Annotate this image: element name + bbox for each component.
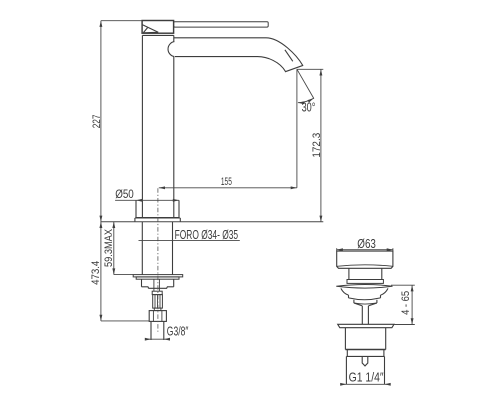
- svg-text:4 - 65: 4 - 65: [400, 291, 412, 315]
- svg-text:155: 155: [221, 176, 232, 188]
- svg-text:G1 1/4″: G1 1/4″: [349, 370, 384, 385]
- svg-text:Ø50: Ø50: [115, 188, 134, 201]
- svg-text:172.3: 172.3: [311, 133, 323, 158]
- svg-text:Ø63: Ø63: [357, 237, 376, 251]
- svg-text:G3/8″: G3/8″: [167, 324, 189, 339]
- svg-text:59.3MAX: 59.3MAX: [103, 228, 115, 267]
- svg-text:FORO Ø34- Ø35: FORO Ø34- Ø35: [175, 227, 239, 242]
- svg-text:30°: 30°: [302, 100, 316, 114]
- svg-text:227: 227: [91, 115, 103, 129]
- svg-text:473.4: 473.4: [90, 261, 102, 285]
